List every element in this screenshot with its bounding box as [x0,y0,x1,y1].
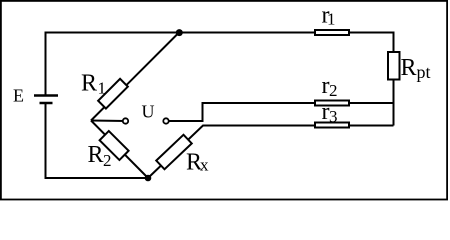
svg-text:R: R [81,71,97,97]
svg-text:R: R [401,55,417,81]
svg-text:2: 2 [103,151,112,170]
svg-text:R: R [88,142,104,168]
svg-text:1: 1 [327,10,336,29]
svg-text:1: 1 [98,79,107,98]
svg-text:E: E [13,86,24,106]
svg-text:x: x [200,156,209,175]
svg-text:pt: pt [417,62,431,82]
svg-text:U: U [142,102,155,122]
svg-text:3: 3 [329,107,338,126]
svg-text:2: 2 [329,81,338,100]
